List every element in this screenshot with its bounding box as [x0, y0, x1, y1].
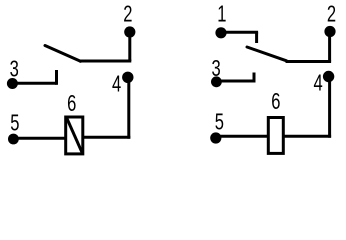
svg-text:1: 1: [217, 2, 226, 27]
wire from pin 2 down (right): [328, 32, 331, 62]
wire pin 5 to coil (right): [216, 135, 269, 138]
switch blade (right): [247, 47, 287, 61]
wire from pin 1 (right): [221, 31, 258, 34]
svg-text:4: 4: [313, 71, 322, 96]
svg-text:5: 5: [215, 110, 224, 135]
pin 3 terminal dot (right): [211, 76, 222, 87]
svg-text:6: 6: [271, 89, 280, 114]
wire horizontal to switch (right): [286, 60, 332, 63]
coil K (right, plain box): [268, 118, 283, 154]
fixed contact stub (left): [55, 70, 58, 85]
common pivot stub (right): [255, 32, 258, 43]
wire from pin 4 down (left): [127, 77, 130, 138]
wire from pin 2 down (left): [128, 32, 131, 61]
pin 3 terminal dot (left): [7, 78, 18, 89]
wire from pin 3 (left): [12, 82, 56, 85]
pin 5 terminal dot (left): [8, 134, 19, 145]
coil diagonal (left): [67, 118, 83, 154]
pin 1 terminal dot (right): [215, 27, 226, 38]
pin 2 terminal dot (right): [324, 26, 335, 37]
wire horizontal to switch (left): [79, 60, 131, 63]
wire from pin 3 (right): [216, 80, 255, 83]
svg-text:5: 5: [10, 111, 19, 136]
wire pin 5 to coil (left): [13, 137, 66, 140]
pin 4 terminal dot (left): [122, 72, 133, 83]
fixed contact stub (right): [253, 73, 256, 83]
pin 5 terminal dot (right): [210, 132, 221, 143]
pin 2 terminal dot (left): [124, 26, 135, 37]
svg-text:4: 4: [112, 72, 121, 97]
wire coil to pin 4 (left): [84, 136, 130, 139]
svg-text:2: 2: [123, 2, 132, 27]
coil K (left, box with diagonal): [66, 117, 83, 154]
svg-text:2: 2: [327, 2, 336, 27]
switch blade (left): [45, 46, 81, 62]
wire from pin 4 down (right): [328, 77, 331, 138]
pin 4 terminal dot (right): [323, 71, 334, 82]
svg-text:6: 6: [67, 91, 76, 116]
wire coil to pin 4 (right): [284, 135, 331, 138]
